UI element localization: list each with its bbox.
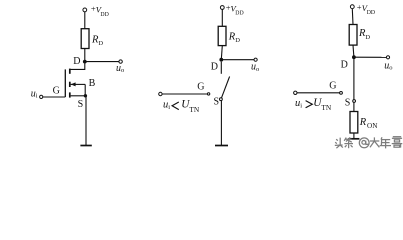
wire node D to output (circuit 3) bbox=[354, 56, 387, 58]
wire drain connection (circuit 1) bbox=[70, 64, 85, 70]
gate terminal circle left (circuit 3) bbox=[294, 91, 297, 94]
resistor RD (circuit 1) bbox=[81, 29, 89, 49]
output terminal circle uo (circuit 1) bbox=[119, 60, 122, 63]
ground (circuit 1) bbox=[80, 145, 91, 147]
wire switch to ground (circuit 2) bbox=[220, 101, 222, 146]
watermark char tou bbox=[335, 138, 343, 149]
svg-text:DD: DD bbox=[100, 12, 108, 18]
wire gate input (circuit 1) bbox=[43, 96, 66, 98]
wire source to ground (circuit 1) bbox=[85, 96, 87, 146]
switch contact circle S closed (circuit 3) bbox=[353, 100, 356, 103]
resistor RD (circuit 2) bbox=[218, 26, 226, 45]
wire resistor to node D (circuit 2) bbox=[221, 46, 222, 60]
wire source line (circuit 1) bbox=[71, 95, 86, 97]
watermark char nian bbox=[380, 137, 391, 148]
transistor T channel bar top (circuit 1) bbox=[69, 69, 71, 74]
node source junction dot (circuit 1) bbox=[84, 94, 87, 97]
wire VDD to resistor RD (circuit 2) bbox=[221, 9, 223, 26]
node +VDD terminal circle (circuit 3) bbox=[350, 5, 354, 9]
svg-text:S: S bbox=[78, 99, 84, 110]
node D junction dot (circuit 1) bbox=[83, 60, 87, 64]
wire VDD to resistor RD (circuit 3) bbox=[351, 9, 354, 25]
wire body to source (circuit 1) bbox=[84, 84, 86, 95]
svg-text:S: S bbox=[345, 98, 351, 109]
resistor RON (circuit 3) bbox=[350, 112, 358, 134]
gate terminal circle right (circuit 2) bbox=[207, 93, 209, 95]
svg-text:B: B bbox=[89, 78, 96, 89]
wire RON to ground (circuit 3) bbox=[353, 133, 355, 139]
input terminal circle ui (circuit 1) bbox=[40, 95, 43, 98]
switch blade open (circuit 2) bbox=[222, 77, 230, 98]
svg-text:D: D bbox=[211, 62, 218, 73]
wire gate line (circuit 2) bbox=[162, 93, 207, 95]
svg-text:D: D bbox=[341, 59, 348, 70]
watermark char tiao bbox=[344, 137, 353, 148]
svg-text:G: G bbox=[197, 82, 204, 93]
svg-text:D: D bbox=[73, 56, 80, 67]
svg-text:G: G bbox=[53, 85, 60, 96]
wire node D to output (circuit 1) bbox=[85, 61, 119, 63]
wire node D to output (circuit 2) bbox=[221, 59, 254, 61]
wire D to RON closed switch (circuit 3) bbox=[353, 59, 355, 112]
node +VDD terminal circle (circuit 1) bbox=[83, 8, 87, 12]
ground (circuit 3) bbox=[348, 138, 359, 140]
transistor T channel bar middle (circuit 1) bbox=[69, 82, 71, 87]
node +VDD terminal circle (circuit 2) bbox=[220, 6, 224, 10]
output terminal circle uo (circuit 3) bbox=[386, 56, 389, 59]
wire VDD to resistor RD (circuit 1) bbox=[84, 12, 86, 29]
watermark char ge bbox=[392, 137, 403, 148]
resistor RD (circuit 3) bbox=[349, 25, 357, 46]
svg-text:G: G bbox=[329, 80, 336, 91]
ground (circuit 2) bbox=[215, 145, 228, 147]
gate terminal circle right (circuit 3) bbox=[340, 92, 343, 95]
svg-text:S: S bbox=[214, 96, 220, 107]
wire gate line (circuit 3) bbox=[297, 92, 340, 94]
gate terminal circle left (circuit 2) bbox=[159, 92, 162, 95]
output terminal circle uo (circuit 2) bbox=[254, 58, 257, 61]
watermark char at-sign bbox=[359, 138, 369, 148]
svg-text:DD: DD bbox=[235, 11, 243, 17]
svg-text:DD: DD bbox=[367, 10, 375, 16]
body arrow line with arrowhead (circuit 1) bbox=[71, 83, 86, 85]
transistor T gate bar (circuit 1) bbox=[64, 69, 66, 97]
switch contact circle S (circuit 2) bbox=[220, 98, 223, 101]
watermark char da bbox=[370, 137, 380, 147]
wire switch fixed contact (circuit 2) bbox=[220, 62, 222, 74]
node D junction dot (circuit 2) bbox=[219, 58, 223, 62]
wire resistor to node D (circuit 3) bbox=[352, 45, 355, 57]
wire resistor to node D (circuit 1) bbox=[84, 49, 86, 62]
transistor T channel bar bottom (circuit 1) bbox=[69, 92, 71, 97]
node D junction dot (circuit 3) bbox=[352, 55, 356, 59]
